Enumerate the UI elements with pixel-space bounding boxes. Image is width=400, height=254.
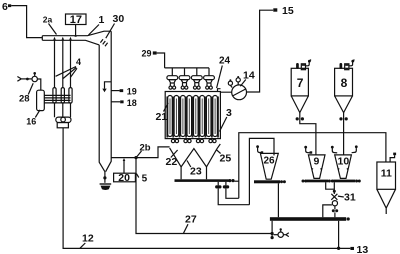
- blower valve at conveyor left: [274, 228, 289, 237]
- feed pipes 4: [55, 40, 71, 87]
- downcomer pipe walls: [99, 31, 111, 172]
- cap C1: [167, 76, 178, 89]
- transport line to silo 11: [239, 133, 386, 199]
- valve 28 assembly: [17, 72, 40, 90]
- svg-text:15: 15: [282, 5, 294, 17]
- svg-text:2a: 2a: [43, 15, 53, 25]
- silo 7: [291, 68, 308, 112]
- stub from bank conveyor: [235, 180, 239, 182]
- wire from 6 to duct: [11, 6, 42, 38]
- pipe 2b: [111, 147, 169, 158]
- svg-text:13: 13: [357, 244, 369, 254]
- svg-text:19: 19: [127, 87, 137, 97]
- burner node under pipe: [103, 172, 106, 183]
- label 3: [220, 107, 233, 132]
- label 2a: [43, 15, 57, 35]
- svg-text:22: 22: [166, 156, 178, 168]
- label 5: [136, 174, 147, 185]
- label 31: [338, 192, 356, 204]
- label 23: [187, 161, 202, 178]
- vessel 16: [37, 90, 45, 110]
- silo 11 inlet fitting: [390, 153, 396, 162]
- cap C3: [191, 76, 202, 89]
- node on 2b: [134, 156, 137, 159]
- hopper 10 right vent fitting: [352, 145, 358, 152]
- svg-text:26: 26: [264, 156, 276, 167]
- svg-text:30: 30: [113, 13, 125, 25]
- riser to hopper 26: [249, 138, 274, 204]
- diverter valve 31: [323, 182, 338, 217]
- line 12 bottom: [63, 128, 350, 249]
- tube inner lines: [170, 99, 215, 135]
- svg-text:16: 16: [26, 116, 36, 126]
- bank conveyor: [175, 179, 235, 182]
- conveyor drop A: [215, 182, 249, 205]
- conveyor under 10: [333, 180, 361, 183]
- fan 14: [232, 85, 247, 100]
- feed arrows in duct: [53, 37, 72, 40]
- label 28: [19, 83, 33, 104]
- cap C4: [204, 76, 215, 89]
- label 2b: [137, 143, 151, 157]
- svg-text:12: 12: [82, 233, 94, 245]
- hatch marks on duct bend: [100, 39, 107, 46]
- box 17: [66, 14, 87, 37]
- tube bank gap shading: [167, 97, 218, 138]
- svg-text:18: 18: [127, 98, 137, 108]
- hoppers 22 23 under bank: [170, 144, 221, 167]
- silo 8 top fittings: [340, 60, 355, 70]
- label 16: [26, 110, 40, 127]
- label 24: [217, 56, 231, 88]
- label 30: [106, 13, 125, 38]
- main conveyor right discharge: [337, 221, 340, 250]
- svg-text:21: 21: [156, 111, 168, 123]
- wire fan to 15: [247, 10, 274, 92]
- connector 13: [350, 244, 368, 254]
- svg-text:1: 1: [99, 14, 105, 26]
- svg-text:6: 6: [2, 1, 8, 13]
- feed lines 16 to pipes: [44, 95, 70, 103]
- silo 8: [335, 68, 353, 112]
- hopper 10: [335, 155, 352, 179]
- silo 7 top fittings: [296, 60, 311, 70]
- conveyor under 9: [302, 180, 334, 183]
- svg-text:17: 17: [70, 14, 82, 26]
- probe in pipe: [102, 82, 111, 92]
- svg-text:11: 11: [381, 168, 392, 180]
- label 1: [89, 14, 105, 35]
- outlet valves under bank: [171, 139, 216, 142]
- silo 8 discharge to hopper 10: [339, 113, 347, 155]
- svg-text:24: 24: [219, 56, 231, 67]
- svg-text:29: 29: [142, 48, 152, 58]
- connector 19: [111, 87, 137, 97]
- svg-text:31: 31: [344, 192, 356, 204]
- tube bank 21 outer: [165, 92, 220, 139]
- hopper 26 vent fitting: [256, 145, 263, 153]
- svg-text:9: 9: [314, 156, 320, 168]
- tubes in bank: [168, 96, 218, 137]
- svg-text:25: 25: [220, 153, 232, 165]
- connector 15: [273, 5, 294, 17]
- svg-text:8: 8: [341, 76, 348, 90]
- svg-text:4: 4: [76, 57, 81, 67]
- label 14: [240, 70, 255, 87]
- main conveyor: [270, 217, 350, 221]
- svg-text:23: 23: [190, 166, 202, 178]
- silo 11: [377, 162, 396, 214]
- hopper 10 left vent fitting: [331, 146, 337, 153]
- pipes converge to mixer: [55, 103, 71, 117]
- hopper 26: [260, 153, 278, 179]
- box 20: [114, 158, 136, 184]
- svg-text:5: 5: [142, 174, 148, 185]
- conveyor drop B: [223, 182, 239, 198]
- drop line to 27: [136, 158, 272, 234]
- main conveyor left drop: [271, 221, 274, 239]
- label 4 with pointers: [56, 57, 81, 79]
- manifold over caps: [165, 68, 209, 76]
- drop 26 conveyor to main conveyor: [277, 183, 279, 217]
- hopper drops to conveyor: [181, 167, 206, 179]
- connector 29: [142, 48, 165, 68]
- burner dish: [100, 184, 112, 190]
- bank outlet elbow to fan: [218, 89, 232, 93]
- mixer under pipes: [56, 117, 71, 128]
- cap C2: [179, 76, 190, 89]
- connector 18: [111, 98, 137, 108]
- svg-text:7: 7: [297, 76, 304, 90]
- label 21: [156, 103, 169, 123]
- silo 7 discharge to hopper 9: [296, 113, 316, 155]
- svg-text:20: 20: [118, 172, 130, 184]
- hopper 9: [308, 155, 325, 179]
- label 27: [184, 214, 197, 234]
- conveyor under 26: [254, 180, 286, 183]
- hopper 9 vent fitting: [304, 146, 312, 154]
- dosing sleeves on pipes 4: [53, 88, 72, 104]
- label 12: [80, 233, 94, 249]
- label 22: [166, 150, 178, 168]
- connector 6: [2, 1, 11, 13]
- duct 1 outline: [42, 31, 111, 45]
- svg-text:14: 14: [243, 70, 255, 82]
- gauges on fan: [228, 76, 240, 88]
- label 25: [216, 150, 231, 165]
- svg-text:10: 10: [338, 156, 350, 168]
- svg-text:28: 28: [19, 93, 30, 104]
- svg-text:27: 27: [185, 214, 197, 226]
